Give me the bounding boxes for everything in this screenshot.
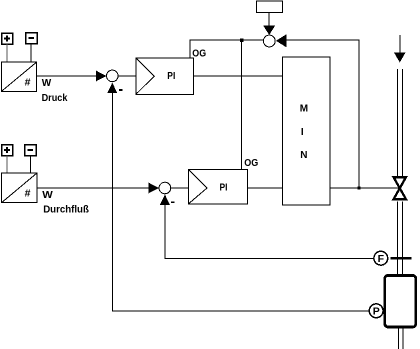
svg-text:Druck: Druck: [42, 93, 68, 104]
wire tracking signal (from valve line): [287, 40, 360, 188]
minus sign at junction 2: [171, 201, 175, 203]
wire plus button to transmitter 1: [6, 44, 8, 62]
PI controller 1 (pressure): [136, 58, 194, 94]
wire W Druck to summing junction 1: [37, 75, 97, 77]
wire OG branch down to PI controller 2: [241, 40, 243, 169]
wire summing junction 1 to PI controller 1: [118, 75, 136, 77]
wire summing junction 2 to PI controller 2: [171, 187, 189, 189]
wire minus button to transmitter 2: [29, 156, 31, 174]
svg-text:PI: PI: [167, 71, 175, 82]
wire minus button to transmitter 1: [30, 44, 32, 63]
svg-text:OG: OG: [192, 49, 206, 60]
summing junction 1: [107, 70, 119, 82]
setpoint plus button (Durchfluss channel): [2, 145, 13, 156]
flow sensor F: [374, 251, 388, 265]
pipe lower segment (double line): [399, 328, 404, 349]
svg-text:N: N: [300, 150, 307, 161]
tracking arrowhead into limiter from right: [276, 34, 287, 47]
pressure sensor P: [369, 304, 383, 318]
control valve (bowtie): [394, 177, 407, 199]
feedback wire from F sensor to summing junction 2: [165, 204, 374, 258]
setpoint minus button (Druck channel): [26, 33, 38, 44]
setpoint adjuster / transmitter 1 (Druck): [2, 62, 37, 91]
svg-text:#: #: [25, 188, 31, 200]
wire W Durchfluss to summing junction 2: [37, 187, 150, 189]
svg-text:P: P: [373, 306, 380, 318]
MIN selector block: [283, 57, 331, 205]
svg-text:F: F: [378, 253, 385, 265]
wire plus button to transmitter 2: [6, 156, 8, 174]
svg-text:OG: OG: [244, 158, 258, 169]
svg-text:#: #: [25, 77, 31, 89]
OG upper-limit wire from PI 1: [190, 40, 263, 58]
flow direction arrow above pipe: [399, 35, 401, 53]
PI controller 2 (flow): [188, 169, 247, 204]
setpoint plus button (Druck channel): [2, 33, 13, 44]
consumer / vessel block: [385, 275, 416, 327]
wire PI 2 output to MIN selector: [248, 187, 283, 189]
pipe upper segment (double line): [397, 69, 402, 176]
node: tracking tap junction dot: [357, 186, 360, 189]
setpoint minus button (Durchfluss channel): [25, 145, 37, 156]
svg-text:PI: PI: [220, 183, 228, 194]
limiter junction circle: [263, 35, 275, 47]
svg-text:M: M: [300, 104, 308, 115]
feedback wire from P sensor to summing junction 1: [112, 92, 369, 311]
wire manual box down to limiter: [268, 12, 270, 27]
summing junction 2: [159, 182, 171, 194]
manual limit setting box: [256, 1, 282, 12]
pipe middle segment (double line): [397, 201, 402, 275]
arrowhead into summing junction 2: [149, 183, 159, 194]
svg-text:Durchfluß: Durchfluß: [43, 205, 89, 216]
arrowhead into limiter from above: [263, 25, 275, 35]
setpoint adjuster / transmitter 2 (Durchfluss): [2, 173, 38, 203]
node: OG branch junction dot: [240, 39, 243, 42]
wire PI 1 output to MIN selector: [193, 75, 282, 77]
minus feedback arrow into summing junction 1: [107, 83, 117, 94]
svg-text:I: I: [301, 127, 304, 138]
svg-text:W: W: [42, 190, 53, 201]
minus sign at junction 1: [119, 89, 123, 91]
orifice measurement mark on pipe: [391, 257, 412, 260]
minus feedback arrow into summing junction 2: [160, 194, 170, 205]
arrowhead into summing junction 1: [96, 71, 106, 82]
wire MIN output to control valve: [330, 187, 399, 189]
svg-text:W: W: [42, 78, 52, 89]
